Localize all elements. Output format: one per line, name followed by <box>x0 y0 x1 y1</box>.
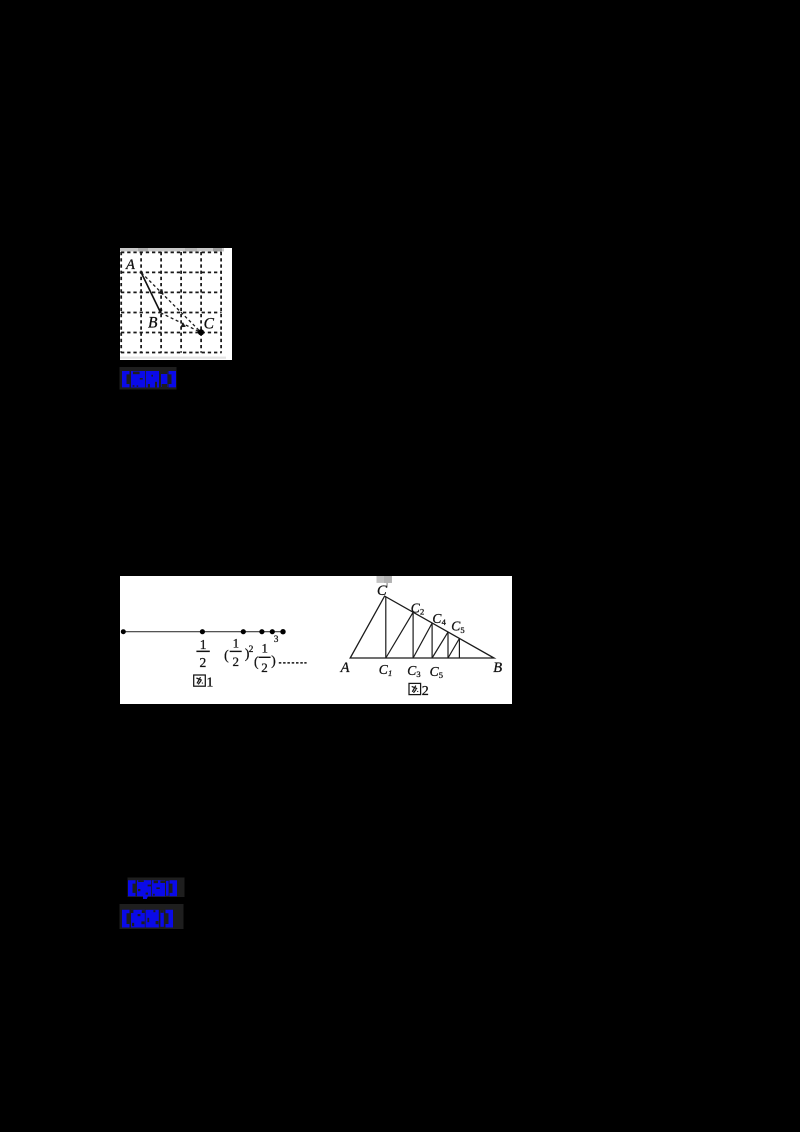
arrowhead on AC <box>158 289 164 295</box>
char 分 <box>131 910 145 928</box>
bracket 【 <box>122 371 130 387</box>
图2 inner diagonals <box>386 612 460 658</box>
考点 label halo <box>128 878 185 898</box>
svg-text:1: 1 <box>206 676 213 691</box>
svg-text:C: C <box>377 583 387 599</box>
svg-text:(: ( <box>224 647 229 662</box>
arrowhead on BC <box>180 322 186 327</box>
dashed grid lines <box>121 252 222 353</box>
svg-text:1: 1 <box>233 637 239 651</box>
comment label 1 halo <box>120 367 177 390</box>
图1 dots on number line <box>121 629 286 634</box>
blue label 【考点】 <box>128 880 177 899</box>
svg-text:2: 2 <box>200 655 207 670</box>
dark stroke gaps in 考点 <box>138 880 165 895</box>
grid horizontal lines <box>121 252 222 352</box>
svg-text:3: 3 <box>416 669 420 679</box>
char 考 <box>137 880 151 896</box>
图1 number line <box>123 631 284 633</box>
grid figure panel <box>120 248 232 360</box>
gray scan strip bottom of grid panel <box>120 357 226 359</box>
svg-text:4: 4 <box>442 617 447 627</box>
bracket 】 <box>170 880 178 896</box>
gray scan strip top of grid panel <box>120 248 224 251</box>
dashed segment BC <box>161 313 201 332</box>
trailing ellipsis dots <box>279 662 307 664</box>
svg-text:A: A <box>340 660 350 676</box>
svg-text:1: 1 <box>388 668 392 678</box>
char 点 <box>131 371 145 388</box>
blue label 【分析】 <box>122 910 173 928</box>
label C2 <box>411 600 424 616</box>
label C5 top <box>451 619 464 635</box>
图2 triangle outline <box>350 596 494 658</box>
label C4 <box>432 611 446 627</box>
dark stroke gaps in 点评 <box>133 371 168 387</box>
dark stroke gaps in 分析 <box>131 910 164 926</box>
svg-text:5: 5 <box>439 670 443 680</box>
char 析 <box>146 910 159 928</box>
svg-text:2: 2 <box>249 645 254 655</box>
figure panel (图1 and 图2) <box>120 576 512 704</box>
dashed segment AC <box>141 273 200 332</box>
分析 label halo <box>120 904 184 929</box>
point C dot <box>198 329 204 335</box>
svg-text:1: 1 <box>200 637 207 652</box>
grid vertical lines <box>121 252 221 353</box>
fraction (1/2)^3 <box>254 634 279 675</box>
svg-text:A: A <box>125 257 135 273</box>
fraction 1/2 <box>196 637 209 670</box>
svg-text:B: B <box>148 315 158 332</box>
caption 图2 <box>409 683 429 699</box>
fraction (1/2)^2 <box>224 637 254 669</box>
svg-text:): ) <box>271 653 276 668</box>
svg-text:1: 1 <box>262 641 268 655</box>
arrowhead at B end of AB <box>158 308 163 314</box>
svg-text:2: 2 <box>420 607 424 617</box>
svg-text:5: 5 <box>460 625 464 635</box>
bracket 【 <box>122 910 130 928</box>
blue label 【点评】 <box>122 371 176 388</box>
svg-text:2: 2 <box>261 660 268 675</box>
caption 图1 <box>194 675 214 691</box>
char 评 <box>146 371 159 388</box>
svg-text:B: B <box>493 660 502 676</box>
label C1 <box>379 662 392 678</box>
label C5 bottom <box>430 664 443 680</box>
svg-text:2: 2 <box>422 684 429 699</box>
segment AB solid <box>141 272 160 311</box>
svg-text:(: ( <box>254 654 259 669</box>
bracket 【 <box>128 880 136 896</box>
svg-text:2: 2 <box>233 654 240 669</box>
bracket 】 <box>166 910 174 928</box>
char 点 <box>152 880 165 896</box>
gray smudge above C apex <box>377 576 392 583</box>
bracket 】 <box>169 371 177 387</box>
图2 inner verticals <box>386 597 460 658</box>
svg-text:C: C <box>204 316 215 333</box>
svg-text:3: 3 <box>274 634 279 644</box>
label C3 <box>407 663 420 679</box>
